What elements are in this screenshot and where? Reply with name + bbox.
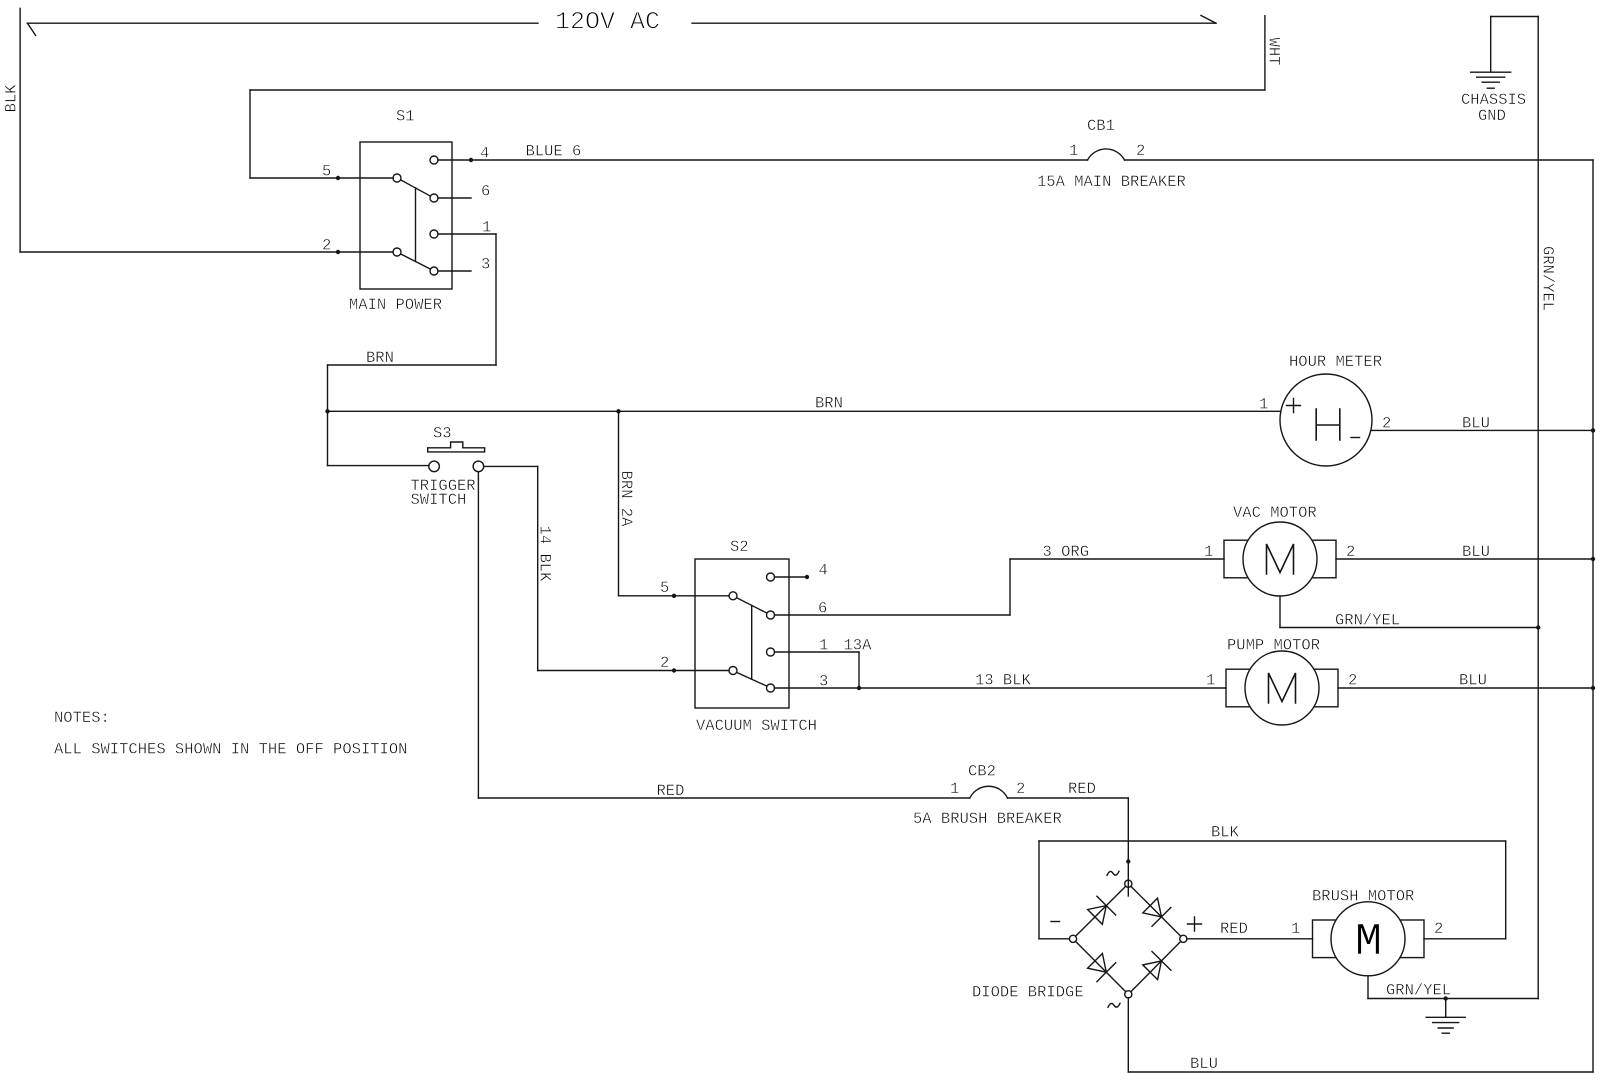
svg-text:VAC MOTOR: VAC MOTOR <box>1233 504 1317 522</box>
svg-text:12OV AC: 12OV AC <box>555 8 660 37</box>
svg-text:ALL SWITCHES SHOWN IN THE OFF: ALL SWITCHES SHOWN IN THE OFF POSITION <box>54 741 407 759</box>
svg-text:BLK: BLK <box>3 84 21 113</box>
svg-text:5: 5 <box>322 163 331 181</box>
svg-text:2: 2 <box>322 237 331 255</box>
svg-text:WHT: WHT <box>1265 38 1283 66</box>
svg-text:RED: RED <box>657 782 685 800</box>
svg-text:CB2: CB2 <box>968 763 996 781</box>
svg-text:BLU: BLU <box>1462 543 1490 561</box>
svg-text:2: 2 <box>1348 672 1357 690</box>
svg-text:RED: RED <box>1068 780 1096 798</box>
svg-text:S1: S1 <box>396 108 415 126</box>
svg-text:CB1: CB1 <box>1087 117 1115 135</box>
svg-text:VACUUM SWITCH: VACUUM SWITCH <box>696 717 817 735</box>
svg-text:1: 1 <box>1069 142 1078 160</box>
svg-text:RED: RED <box>1220 920 1248 938</box>
svg-text:5: 5 <box>660 579 669 597</box>
svg-text:GRN/YEL: GRN/YEL <box>1335 612 1400 630</box>
svg-text:1: 1 <box>1206 672 1215 690</box>
svg-text:BLK: BLK <box>1211 824 1240 842</box>
svg-text:5A BRUSH BREAKER: 5A BRUSH BREAKER <box>913 810 1062 828</box>
svg-text:2: 2 <box>1434 920 1443 938</box>
svg-text:1: 1 <box>950 780 959 798</box>
svg-text:S3: S3 <box>433 425 452 443</box>
svg-text:BRN: BRN <box>815 395 843 413</box>
svg-text:S2: S2 <box>730 538 749 556</box>
svg-text:3 ORG: 3 ORG <box>1043 543 1090 561</box>
svg-text:3: 3 <box>481 256 490 274</box>
svg-text:1: 1 <box>1204 543 1213 561</box>
svg-text:M: M <box>1355 917 1382 968</box>
svg-text:1: 1 <box>482 219 491 237</box>
svg-text:GND: GND <box>1478 107 1506 125</box>
svg-text:HOUR METER: HOUR METER <box>1289 353 1382 371</box>
svg-text:13 BLK: 13 BLK <box>975 672 1032 690</box>
svg-text:14 BLK: 14 BLK <box>536 526 554 583</box>
svg-text:DIODE BRIDGE: DIODE BRIDGE <box>972 984 1084 1002</box>
svg-text:2: 2 <box>1016 780 1025 798</box>
svg-text:BRN 2A: BRN 2A <box>617 471 635 528</box>
svg-text:BLU: BLU <box>1190 1055 1218 1073</box>
svg-text:4: 4 <box>819 562 828 580</box>
svg-text:NOTES:: NOTES: <box>54 709 110 727</box>
svg-text:BLU: BLU <box>1459 672 1487 690</box>
svg-text:2: 2 <box>1136 142 1145 160</box>
svg-text:2: 2 <box>660 654 669 672</box>
svg-text:BLUE 6: BLUE 6 <box>526 143 582 161</box>
svg-text:SWITCH: SWITCH <box>411 491 467 509</box>
svg-text:BRN: BRN <box>366 349 394 367</box>
svg-text:6: 6 <box>481 183 490 201</box>
svg-text:GRN/YEL: GRN/YEL <box>1386 982 1451 1000</box>
svg-text:BLU: BLU <box>1462 415 1490 433</box>
svg-text:MAIN POWER: MAIN POWER <box>349 296 442 314</box>
svg-text:1: 1 <box>1259 396 1268 414</box>
svg-text:1: 1 <box>1291 920 1300 938</box>
svg-text:GRN/YEL: GRN/YEL <box>1539 246 1557 311</box>
svg-text:15A MAIN BREAKER: 15A MAIN BREAKER <box>1037 173 1186 191</box>
